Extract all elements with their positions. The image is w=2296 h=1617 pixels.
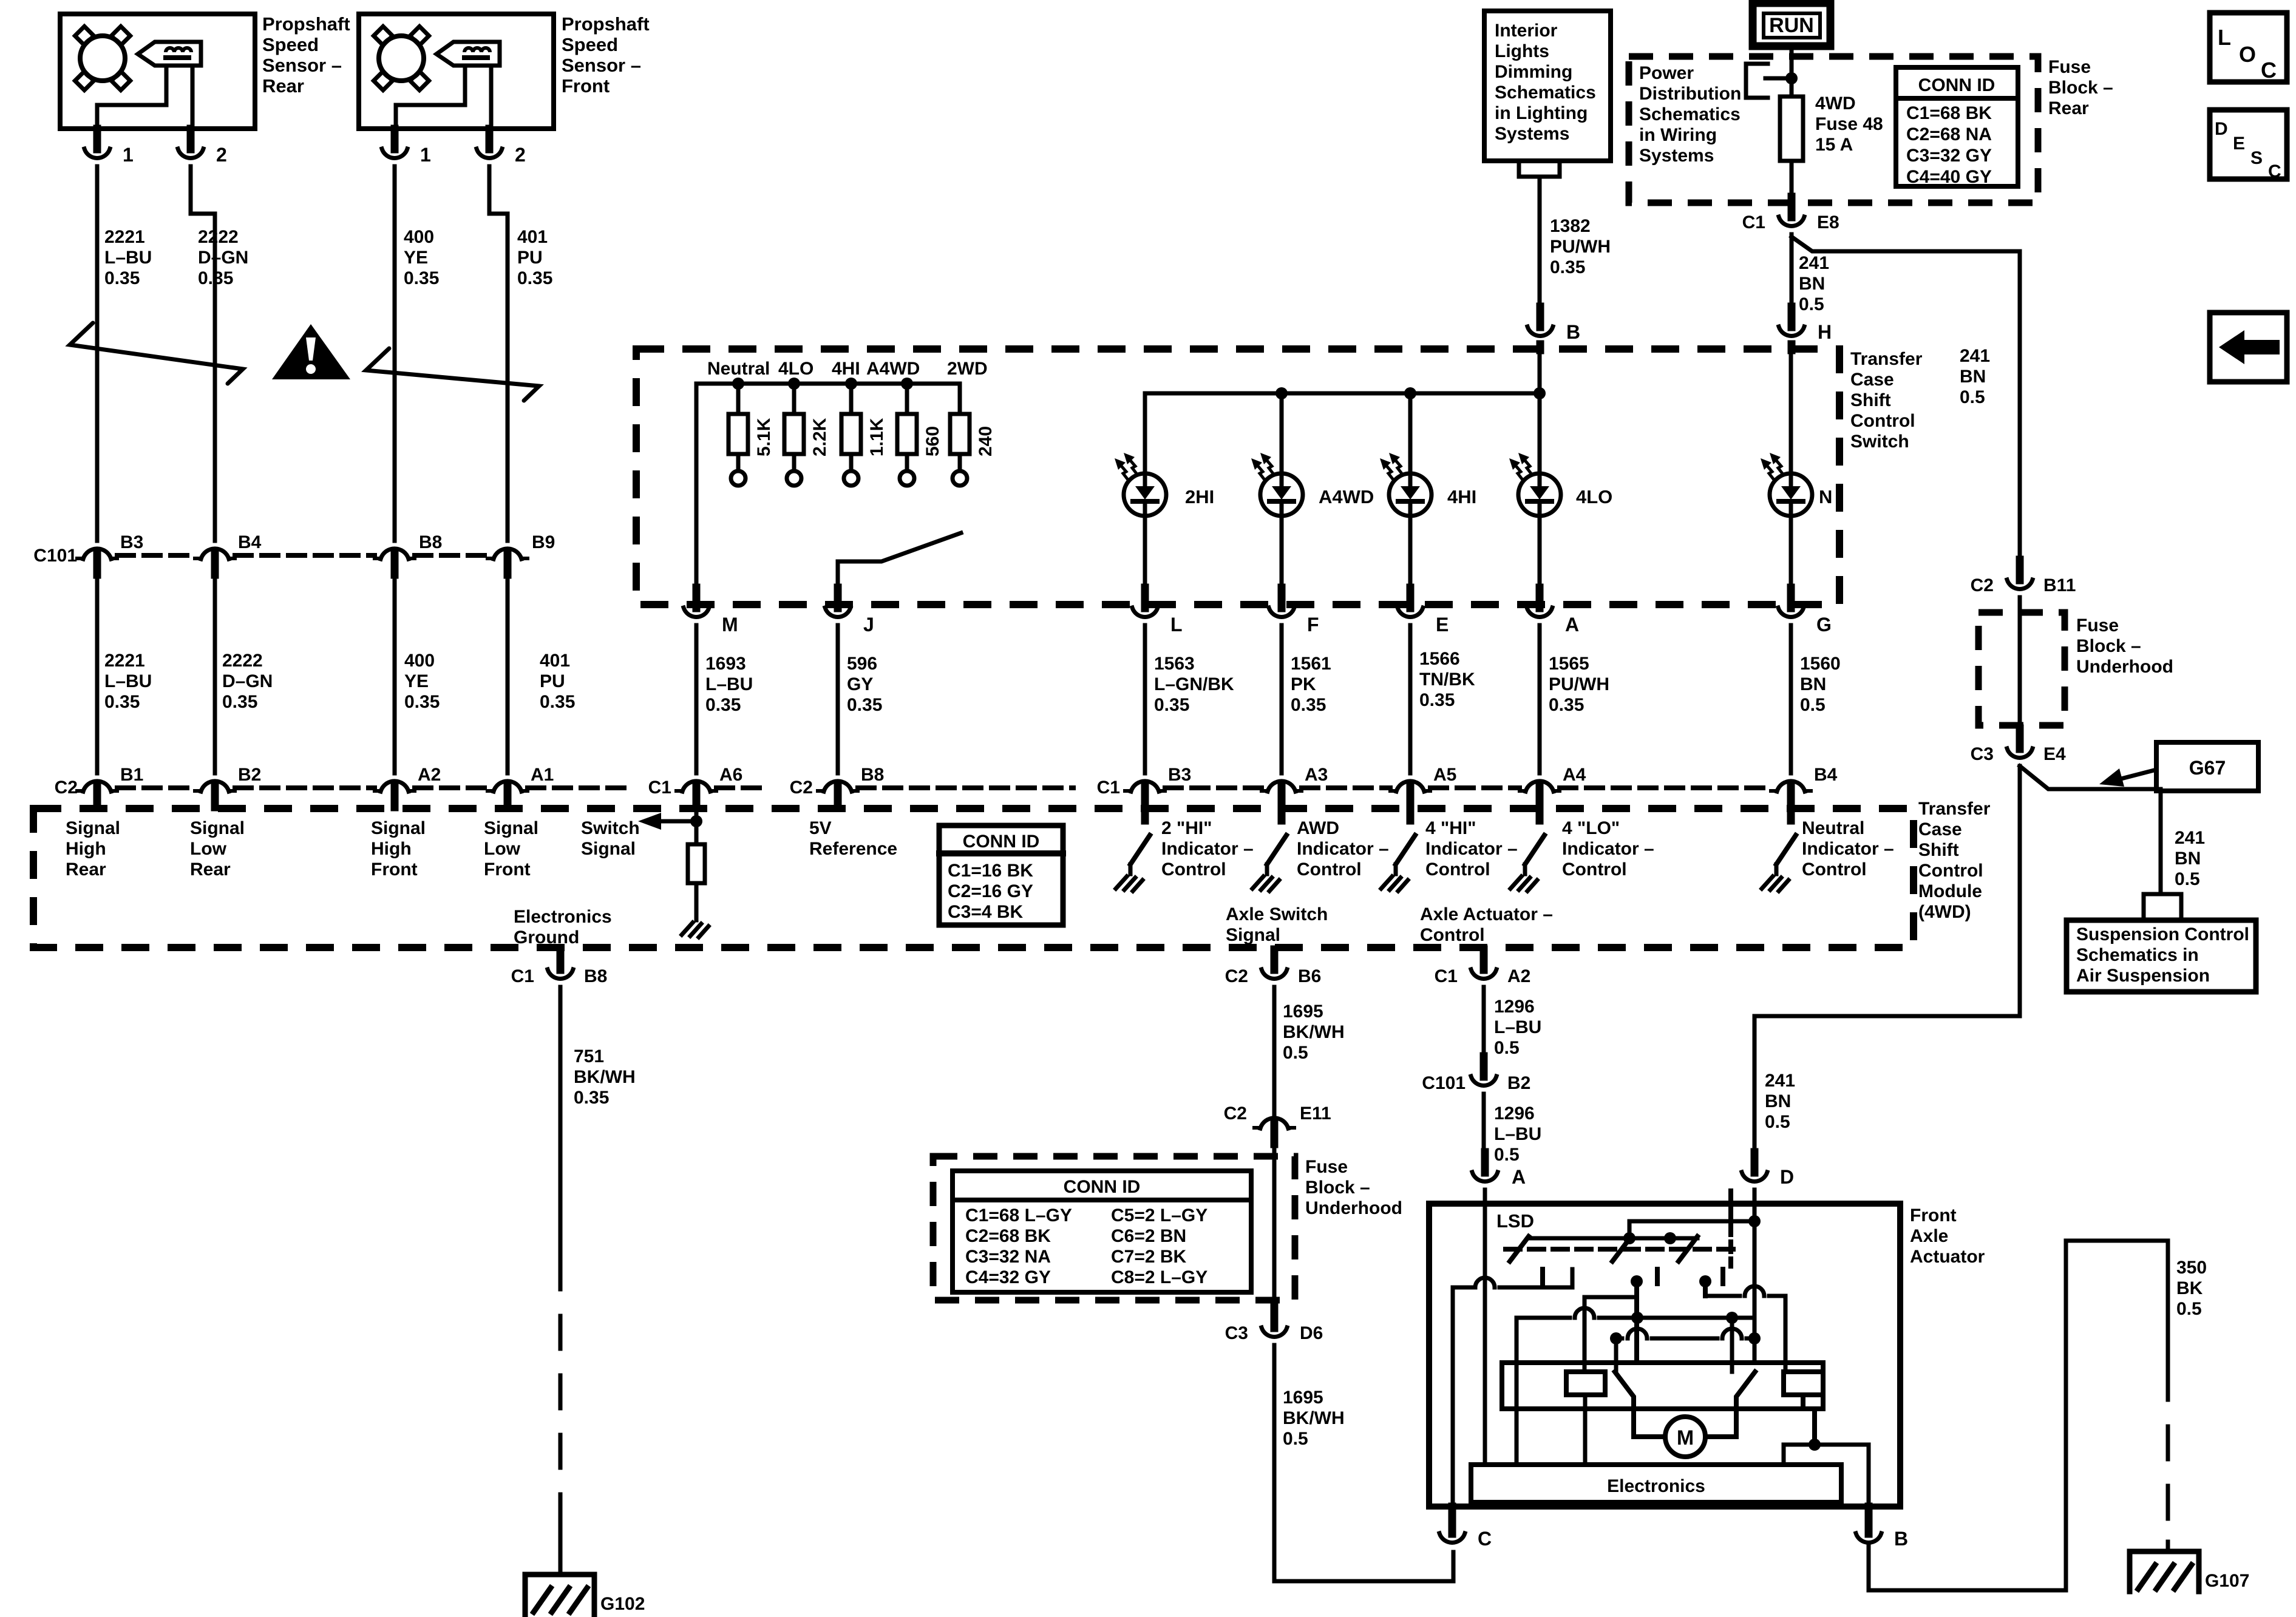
- sensor front toothed-wheel icon: [373, 26, 429, 90]
- svg-text:Front: Front: [1910, 1205, 1957, 1225]
- wire LED branch: [1408, 393, 1413, 473]
- svg-text:Systems: Systems: [1495, 124, 1569, 144]
- relay contact right: [1705, 1372, 1755, 1437]
- switch pin A: [1527, 588, 1552, 617]
- svg-text:1296: 1296: [1494, 1103, 1535, 1124]
- wire 401 upper segment: [489, 166, 508, 541]
- connector C101 pin B4: [195, 549, 235, 575]
- wire below pin L: [1143, 625, 1147, 773]
- resistor 2.2K: [784, 384, 804, 486]
- ground G107: [2130, 1551, 2249, 1592]
- fuse block rear CONN ID table: [1896, 67, 2018, 187]
- power distribution branch bracket: [1746, 64, 1768, 98]
- fuse block underhood dashed box: [933, 1156, 1295, 1300]
- electronics box: [1471, 1465, 1841, 1502]
- svg-text:D–GN: D–GN: [198, 248, 248, 268]
- svg-text:PU: PU: [540, 671, 565, 691]
- wire 1382 feed into LED bus: [1538, 350, 1542, 393]
- svg-text:BN: BN: [2175, 849, 2201, 869]
- interior lights dimming schematics box: [1484, 11, 1611, 161]
- connector C101 pin B2: [1471, 1056, 1496, 1085]
- module connector dashed line: [235, 785, 375, 790]
- junction dot RUN feed: [1785, 72, 1798, 84]
- svg-text:Reference: Reference: [809, 839, 897, 859]
- module connector dashed line: [528, 785, 625, 790]
- relay coil right lead: [1801, 1395, 1805, 1409]
- wire below pin E: [1408, 625, 1413, 773]
- sensor front internal wire to pin 2: [489, 66, 494, 129]
- sensor rear internal wire to pin 2: [191, 66, 195, 129]
- module connector pin B1: [77, 781, 117, 807]
- RUN power mode box: [1753, 3, 1830, 46]
- ground G102: [525, 1575, 645, 1615]
- svg-text:1695: 1695: [1283, 1002, 1323, 1022]
- switch pin L: [1132, 588, 1158, 617]
- module connector dashed line: [1560, 785, 1771, 790]
- wire pin A into actuator: [1483, 1190, 1487, 1204]
- svg-text:B8: B8: [419, 532, 442, 552]
- wire below pin A: [1538, 625, 1542, 773]
- svg-text:400: 400: [404, 651, 435, 671]
- junction dot contact 1: [1631, 1275, 1643, 1287]
- svg-text:C1=68 L–GY: C1=68 L–GY: [965, 1205, 1072, 1225]
- svg-text:560: 560: [923, 426, 943, 456]
- svg-text:0.5: 0.5: [1799, 294, 1824, 314]
- 4 "LO" indicator driver switch blade: [1525, 835, 1544, 864]
- svg-text:C1: C1: [648, 778, 671, 798]
- svg-text:D6: D6: [1300, 1323, 1323, 1343]
- relay coil right: [1784, 1372, 1823, 1395]
- sensor pin 1 connector at x=650: [382, 129, 407, 158]
- svg-text:E4: E4: [2043, 744, 2066, 764]
- wire 1695 BK/WH lower: [1274, 1345, 1453, 1581]
- wire pin D into actuator: [1753, 1190, 1757, 1204]
- svg-text:596: 596: [847, 654, 877, 674]
- LSD switch blade 2: [1612, 1236, 1631, 1261]
- svg-text:Systems: Systems: [1639, 146, 1714, 166]
- svg-text:241: 241: [1765, 1071, 1795, 1091]
- svg-text:Block –: Block –: [1305, 1178, 1370, 1198]
- wire rail Q left drop: [1614, 1338, 1618, 1372]
- LED supply bus wire: [1145, 392, 1540, 396]
- svg-text:241: 241: [2175, 828, 2205, 848]
- svg-text:0.5: 0.5: [1494, 1145, 1520, 1165]
- svg-text:Shift: Shift: [1850, 390, 1891, 410]
- svg-text:L–BU: L–BU: [104, 248, 152, 268]
- svg-text:C2: C2: [1225, 966, 1248, 986]
- module CONN ID table: [939, 825, 1063, 925]
- relay rail Q: [1616, 1329, 1754, 1338]
- module connector dashed line: [117, 785, 195, 790]
- switch pin H: [1779, 307, 1804, 336]
- svg-text:Shift: Shift: [1918, 840, 1959, 860]
- wire 1382 PU/WH: [1538, 177, 1542, 316]
- svg-text:2WD: 2WD: [947, 359, 988, 379]
- svg-text:A3: A3: [1305, 765, 1328, 785]
- svg-text:Indicator –: Indicator –: [1425, 839, 1518, 859]
- svg-text:Control: Control: [1562, 859, 1627, 880]
- svg-text:L–BU: L–BU: [705, 674, 753, 694]
- svg-text:N: N: [1819, 486, 1832, 507]
- svg-text:0.35: 0.35: [705, 695, 741, 715]
- svg-text:Neutral: Neutral: [707, 359, 770, 379]
- svg-text:Suspension Control: Suspension Control: [2076, 924, 2249, 944]
- actuator pin B stub: [1865, 1507, 1873, 1517]
- svg-text:C2=68 BK: C2=68 BK: [965, 1226, 1051, 1246]
- junction dot electronics-B: [1809, 1439, 1821, 1451]
- svg-text:4HI: 4HI: [832, 359, 860, 379]
- connector C101 dashed line seg3: [415, 553, 487, 558]
- svg-text:D: D: [1780, 1166, 1794, 1188]
- svg-text:A2: A2: [418, 765, 441, 785]
- svg-text:GY: GY: [847, 674, 873, 694]
- svg-text:BK/WH: BK/WH: [574, 1067, 636, 1087]
- svg-text:Block –: Block –: [2048, 78, 2113, 98]
- svg-text:L: L: [2218, 25, 2231, 50]
- svg-text:0.5: 0.5: [1494, 1038, 1520, 1058]
- svg-text:Actuator: Actuator: [1910, 1247, 1985, 1267]
- svg-text:CONN ID: CONN ID: [1918, 75, 1995, 95]
- svg-text:B2: B2: [238, 765, 261, 785]
- wire 400 lower segment: [393, 574, 397, 773]
- svg-text:in Wiring: in Wiring: [1639, 125, 1717, 145]
- svg-text:M: M: [722, 614, 738, 636]
- connector E11: [1254, 1118, 1294, 1144]
- svg-text:B6: B6: [1298, 966, 1321, 986]
- svg-text:1296: 1296: [1494, 997, 1535, 1017]
- svg-text:A: A: [1512, 1166, 1526, 1188]
- svg-text:Signal: Signal: [484, 818, 538, 838]
- svg-text:BK: BK: [2176, 1278, 2203, 1298]
- LSD linkage dashed vertical: [1728, 1191, 1733, 1266]
- svg-text:0.35: 0.35: [104, 268, 140, 288]
- junction dot on selector bus: [732, 378, 744, 390]
- back arrow box: [2210, 313, 2287, 382]
- wire fuse to E8: [1790, 161, 1794, 200]
- svg-text:Signal: Signal: [66, 818, 120, 838]
- svg-text:F: F: [1307, 614, 1319, 636]
- svg-text:Indicator –: Indicator –: [1802, 839, 1894, 859]
- svg-text:B9: B9: [532, 532, 555, 552]
- junction dot on LED bus: [1533, 387, 1546, 399]
- svg-text:Case: Case: [1918, 819, 1962, 839]
- module connector pin A2: [375, 781, 415, 807]
- svg-text:C4=32 GY: C4=32 GY: [965, 1267, 1051, 1287]
- svg-text:H: H: [1818, 321, 1832, 343]
- svg-text:B8: B8: [584, 966, 607, 986]
- svg-text:1560: 1560: [1800, 654, 1841, 674]
- connector B11: [2007, 560, 2033, 589]
- svg-text:Schematics in: Schematics in: [2076, 945, 2199, 965]
- svg-text:Dimming: Dimming: [1495, 62, 1572, 82]
- actuator pin C: [1439, 1513, 1465, 1542]
- LSD switch blade 1: [1510, 1236, 1529, 1261]
- relay assembly box: [1502, 1363, 1823, 1409]
- front axle actuator box: [1429, 1204, 1900, 1507]
- svg-text:1693: 1693: [705, 654, 746, 674]
- svg-text:Front: Front: [484, 859, 531, 880]
- svg-text:L–GN/BK: L–GN/BK: [1154, 674, 1234, 694]
- svg-text:L–BU: L–BU: [1494, 1124, 1541, 1144]
- svg-text:1: 1: [420, 144, 431, 166]
- connector E4: [2007, 728, 2033, 758]
- AWD indicator driver stub: [1278, 808, 1286, 821]
- svg-text:0.35: 0.35: [104, 692, 140, 712]
- actuator pin D: [1742, 1152, 1767, 1181]
- junction dot switch signal: [690, 815, 702, 827]
- svg-text:Module: Module: [1918, 881, 1982, 901]
- svg-text:CONN ID: CONN ID: [963, 832, 1040, 852]
- fuse 48 4WD 15A: [1780, 97, 1803, 161]
- warning triangle symbol: [272, 324, 350, 379]
- transfer case shift control module dashed box: [33, 808, 1914, 947]
- svg-text:C3=32 GY: C3=32 GY: [1906, 146, 1992, 166]
- junction dot on selector bus: [901, 378, 913, 390]
- wire 241 BN to suspension: [2020, 766, 2161, 894]
- wire resistor to ground: [695, 883, 699, 910]
- svg-text:M: M: [1677, 1426, 1694, 1449]
- svg-text:L–BU: L–BU: [1494, 1017, 1541, 1037]
- sensor front internal wire to pin 1: [396, 66, 465, 129]
- svg-text:Block –: Block –: [2076, 636, 2141, 656]
- fuse block underhood (right) dashed box: [1978, 612, 2065, 725]
- svg-text:C6=2 BN: C6=2 BN: [1111, 1226, 1186, 1246]
- svg-text:350: 350: [2176, 1258, 2207, 1278]
- wire 241 BN E8 to H: [1790, 234, 1794, 316]
- svg-text:A4WD: A4WD: [1319, 486, 1374, 507]
- relay rail P: [1517, 1308, 1754, 1318]
- wire 241 BN to actuator D: [1754, 766, 2020, 1159]
- svg-text:D–GN: D–GN: [222, 671, 273, 691]
- LSD contact stub c: [1720, 1269, 1725, 1284]
- indicator LED 4LO: [1509, 453, 1612, 516]
- LSD blade rail: [1529, 1236, 1697, 1241]
- wire 751 BK/WH lower: [559, 1499, 563, 1575]
- svg-text:B4: B4: [238, 532, 262, 552]
- svg-text:C1=16 BK: C1=16 BK: [948, 861, 1033, 881]
- svg-text:Signal: Signal: [1226, 925, 1280, 945]
- LSD contact down 2: [1703, 1281, 1708, 1296]
- module connector dashed line: [415, 785, 487, 790]
- svg-text:1565: 1565: [1549, 654, 1589, 674]
- svg-text:B3: B3: [1168, 765, 1191, 785]
- module connector dashed line: [858, 785, 1073, 790]
- svg-text:Control: Control: [1802, 859, 1867, 880]
- svg-text:Underhood: Underhood: [1305, 1198, 1402, 1218]
- svg-text:0.5: 0.5: [2175, 869, 2200, 889]
- svg-text:C1=68 BK: C1=68 BK: [1906, 103, 1992, 123]
- actuator wire C column: [1451, 1287, 1455, 1507]
- svg-text:Switch: Switch: [581, 818, 640, 838]
- svg-text:0.5: 0.5: [1283, 1429, 1308, 1449]
- indicator LED 2HI: [1115, 453, 1214, 516]
- svg-text:C2: C2: [55, 778, 78, 798]
- svg-text:241: 241: [1960, 346, 1990, 366]
- wire 2221 upper segment: [95, 166, 100, 541]
- selector bus wire: [696, 384, 960, 605]
- svg-text:A4WD: A4WD: [866, 359, 920, 379]
- relay coil left: [1566, 1372, 1605, 1395]
- svg-text:Case: Case: [1850, 370, 1894, 390]
- svg-text:C3=4 BK: C3=4 BK: [948, 902, 1024, 922]
- svg-text:Front: Front: [562, 75, 610, 97]
- svg-text:Fuse: Fuse: [1305, 1157, 1348, 1177]
- svg-text:Switch: Switch: [1850, 432, 1909, 452]
- svg-text:4LO: 4LO: [1576, 486, 1612, 507]
- svg-text:2.2K: 2.2K: [810, 418, 830, 456]
- svg-text:0.35: 0.35: [540, 692, 575, 712]
- wire 350 BK from B: [1869, 1241, 2168, 1590]
- svg-text:Fuse: Fuse: [2048, 57, 2091, 77]
- svg-text:Rear: Rear: [66, 859, 106, 880]
- svg-text:B: B: [1566, 321, 1580, 343]
- connector C101 pin B8: [375, 549, 415, 575]
- svg-text:High: High: [66, 839, 106, 859]
- svg-text:0.35: 0.35: [574, 1088, 609, 1108]
- svg-text:401: 401: [517, 227, 548, 247]
- actuator wire A column: [1483, 1204, 1487, 1465]
- wire pin B into switch box: [1537, 344, 1544, 350]
- svg-text:E: E: [2233, 134, 2245, 154]
- svg-text:Neutral: Neutral: [1802, 818, 1864, 838]
- LSD contact down 1: [1634, 1281, 1639, 1363]
- svg-text:Axle: Axle: [1910, 1226, 1948, 1246]
- svg-text:A6: A6: [719, 765, 742, 785]
- svg-text:B1: B1: [120, 765, 143, 785]
- svg-text:Signal: Signal: [190, 818, 245, 838]
- G67 arrow: [2119, 770, 2156, 779]
- svg-text:Lights: Lights: [1495, 41, 1549, 61]
- wire 401 lower segment: [506, 574, 510, 773]
- svg-text:BN: BN: [1799, 274, 1825, 294]
- 4 "LO" indicator driver stub: [1536, 808, 1544, 821]
- svg-text:Sensor –: Sensor –: [262, 55, 342, 76]
- relay coil left lead: [1583, 1395, 1588, 1465]
- wire LED branch 4LO: [1538, 393, 1542, 473]
- wire relay to B: [1812, 1409, 1817, 1445]
- svg-text:BK/WH: BK/WH: [1283, 1022, 1345, 1042]
- svg-text:O: O: [2239, 42, 2256, 67]
- wire LED to pin: [1408, 516, 1413, 605]
- interior lights box bottom stub: [1519, 161, 1560, 177]
- Neutral indicator driver switch blade: [1776, 835, 1796, 864]
- svg-text:A5: A5: [1433, 765, 1456, 785]
- svg-text:Air Suspension: Air Suspension: [2076, 966, 2210, 986]
- module connector pin B2: [195, 781, 235, 807]
- svg-text:A2: A2: [1507, 966, 1530, 986]
- junction dot rail Q left: [1610, 1332, 1622, 1344]
- svg-text:Schematics: Schematics: [1639, 104, 1741, 124]
- pull resistor on switch signal: [688, 844, 705, 883]
- svg-text:L–BU: L–BU: [104, 671, 152, 691]
- sensor pin 2 connector at x=314: [178, 129, 203, 158]
- switch signal arrow: [659, 819, 696, 824]
- svg-text:Transfer: Transfer: [1918, 799, 1991, 819]
- svg-text:A4: A4: [1563, 765, 1586, 785]
- resistor 560: [897, 384, 917, 486]
- module connector dashed line: [1165, 785, 1262, 790]
- svg-text:0.5: 0.5: [1765, 1112, 1790, 1132]
- svg-text:4 "HI": 4 "HI": [1425, 818, 1476, 838]
- svg-text:Distribution: Distribution: [1639, 84, 1741, 104]
- wire v5 drop: [1730, 1318, 1734, 1372]
- module connector dashed line: [1302, 785, 1390, 790]
- svg-text:C2: C2: [1971, 575, 1994, 595]
- svg-text:Rear: Rear: [262, 75, 304, 97]
- Neutral indicator driver stub: [1787, 808, 1795, 821]
- svg-text:C: C: [1478, 1528, 1492, 1550]
- fuse block CONN ID table: [953, 1171, 1251, 1292]
- svg-text:(4WD): (4WD): [1918, 902, 1971, 922]
- connector C101 pin B9: [487, 549, 528, 575]
- svg-text:PU: PU: [517, 248, 543, 268]
- sensor rear pickup-coil arrow icon: [138, 42, 201, 66]
- svg-text:PU/WH: PU/WH: [1550, 237, 1611, 257]
- resistor 5.1K: [729, 384, 748, 486]
- wire into fuse block underhood: [1272, 1144, 1277, 1300]
- svg-text:LSD: LSD: [1496, 1210, 1534, 1232]
- svg-text:0.35: 0.35: [1154, 695, 1189, 715]
- svg-text:1382: 1382: [1550, 216, 1591, 236]
- wire through right fuse block: [2018, 597, 2022, 728]
- svg-text:C101: C101: [33, 546, 77, 566]
- svg-text:1: 1: [123, 144, 134, 166]
- module connector pin A6: [676, 781, 716, 807]
- indicator LED A4WD: [1251, 453, 1374, 516]
- junction dot rail Q right: [1748, 1332, 1761, 1344]
- module pin B8 (electronics ground): [548, 949, 573, 978]
- svg-text:Underhood: Underhood: [2076, 657, 2173, 677]
- junction dot D top: [1748, 1215, 1761, 1227]
- svg-text:0.35: 0.35: [517, 268, 552, 288]
- svg-text:A: A: [1565, 614, 1579, 636]
- svg-text:Low: Low: [190, 839, 227, 859]
- svg-text:PU/WH: PU/WH: [1549, 674, 1609, 694]
- module pin A2 (axle actuator control): [1471, 949, 1496, 978]
- actuator pin C stub: [1449, 1507, 1456, 1517]
- ground (module internal): [682, 910, 708, 937]
- junction dot on selector bus: [788, 378, 800, 390]
- svg-text:Transfer: Transfer: [1850, 349, 1923, 369]
- svg-text:1695: 1695: [1283, 1388, 1323, 1408]
- link to right coil: [1705, 1286, 1785, 1372]
- junction dot on selector bus: [845, 378, 857, 390]
- switch pin F: [1269, 588, 1294, 617]
- propshaft speed sensor front box B2: [359, 14, 554, 129]
- svg-text:Signal: Signal: [581, 839, 636, 859]
- svg-text:Rear: Rear: [190, 859, 231, 880]
- svg-text:0.35: 0.35: [1419, 690, 1455, 710]
- svg-text:Axle Switch: Axle Switch: [1226, 904, 1328, 924]
- svg-text:S: S: [2250, 148, 2263, 168]
- transfer case shift control switch dashed box: [636, 349, 1839, 605]
- svg-text:C: C: [2268, 161, 2281, 181]
- junction dot contact 2: [1699, 1275, 1711, 1287]
- svg-text:Speed: Speed: [262, 34, 319, 55]
- svg-text:Sensor –: Sensor –: [562, 55, 641, 76]
- svg-text:0.5: 0.5: [1960, 387, 1985, 407]
- svg-text:C2: C2: [1224, 1103, 1247, 1124]
- svg-text:C1: C1: [511, 966, 534, 986]
- svg-text:C4=40 GY: C4=40 GY: [1906, 167, 1992, 187]
- resistor 1.1K: [841, 384, 861, 486]
- switch pin B: [1527, 307, 1553, 336]
- svg-text:4 "LO": 4 "LO": [1562, 818, 1620, 838]
- selector wiper switch: [838, 533, 961, 605]
- AWD indicator driver ground: [1252, 864, 1279, 891]
- sensor rear internal wire to pin 1: [97, 66, 166, 129]
- svg-text:2HI: 2HI: [1185, 486, 1214, 507]
